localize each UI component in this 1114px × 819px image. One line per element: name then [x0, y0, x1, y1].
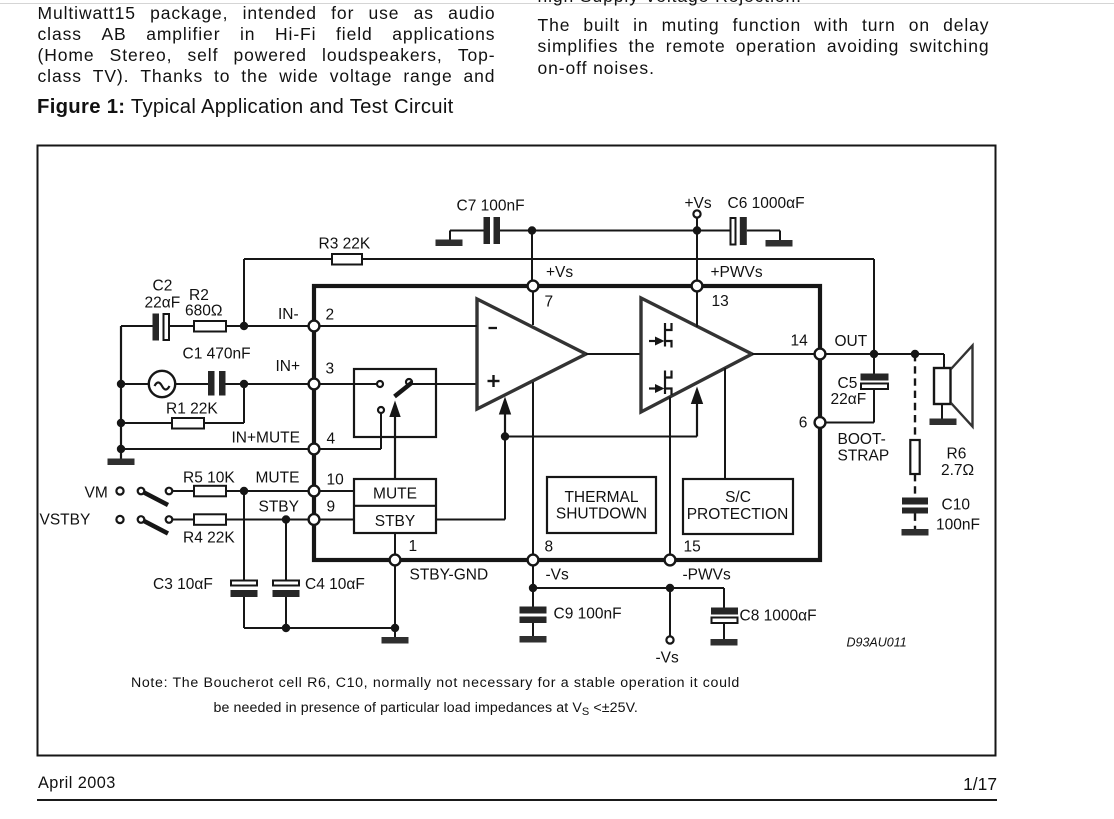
- transistor lower DMOS: [649, 371, 672, 396]
- arrow stby to power stage: [691, 387, 703, 405]
- pin 10: [309, 486, 320, 497]
- wire op-amp to pin 8: [532, 382, 534, 555]
- pin 4: [309, 444, 320, 455]
- figure caption: [37, 96, 454, 119]
- junction: [282, 624, 290, 632]
- svg-text:D93AU011: D93AU011: [847, 636, 907, 650]
- svg-text:R6: R6: [947, 446, 967, 463]
- wire speaker to ground: [941, 404, 943, 419]
- svg-text:IN+MUTE: IN+MUTE: [232, 430, 300, 447]
- wire IN+MUTE to pin 4: [121, 448, 309, 450]
- wire C1 to pin 3: [226, 383, 309, 385]
- svg-text:STRAP: STRAP: [838, 448, 890, 465]
- wire bus to source: [121, 383, 149, 385]
- svg-text:8: 8: [545, 539, 554, 556]
- wire C5 to pin 6: [873, 389, 875, 423]
- wire dashed to R6: [914, 354, 916, 440]
- svg-text:9: 9: [327, 499, 336, 516]
- wire pin 13 into power stage: [696, 286, 698, 327]
- wire power stage to S/C protection: [724, 368, 726, 479]
- wire C7 ground stub: [449, 231, 451, 241]
- ground (C7): [436, 240, 463, 247]
- junction (C4 node): [282, 515, 290, 523]
- svg-text:C6 1000αF: C6 1000αF: [728, 195, 805, 212]
- svg-text:-Vs: -Vs: [546, 567, 570, 584]
- wire R1 right: [204, 422, 244, 424]
- wire to C3: [243, 491, 245, 581]
- wire to R4: [173, 519, 195, 521]
- svg-text:-PWVs: -PWVs: [683, 567, 731, 584]
- thermal shutdown box: [547, 477, 656, 533]
- junction (C3 node): [240, 487, 248, 495]
- pin 3: [309, 379, 320, 390]
- wire down to pin 7: [531, 231, 533, 281]
- mute switch box: [354, 369, 436, 437]
- transistor upper DMOS: [649, 323, 672, 348]
- capacitor C5 (polarized): [861, 374, 889, 381]
- svg-text:C10: C10: [942, 497, 971, 514]
- pin 9: [309, 514, 320, 525]
- ground (STBY-GND): [382, 637, 409, 644]
- wire switch to op-amp +: [412, 383, 477, 385]
- switch SW1 lever: [144, 493, 168, 506]
- wire C7 gnd to C7: [450, 230, 484, 232]
- svg-text:R1 22K: R1 22K: [166, 401, 218, 418]
- svg-text:100nF: 100nF: [936, 517, 980, 534]
- svg-text:14: 14: [791, 333, 809, 350]
- svg-text:IN+: IN+: [276, 358, 301, 375]
- wire to C9: [532, 588, 534, 607]
- plus input mark: [488, 380, 500, 382]
- wire pin 7 into op-amp: [532, 286, 534, 325]
- svg-text:OUT: OUT: [835, 333, 868, 350]
- wire op-amp out to power stage: [586, 353, 641, 355]
- capacitor C6 (polarized): [731, 218, 736, 245]
- wire pin 3 to switch: [320, 383, 378, 385]
- svg-text:3: 3: [326, 361, 335, 378]
- wire to speaker: [943, 354, 945, 368]
- ground (C9): [520, 636, 547, 643]
- junction (IN+ node): [240, 380, 248, 388]
- capacitor C10: [902, 498, 928, 505]
- svg-text:MUTE: MUTE: [373, 486, 417, 503]
- wire C9 down: [532, 623, 534, 636]
- wire box to pin 1: [394, 533, 396, 555]
- pin 8: [528, 555, 539, 566]
- wire feedback drop to OUT: [873, 259, 875, 354]
- wire R3 to OUT (feedback): [362, 258, 874, 260]
- wire to R3: [244, 258, 332, 260]
- junction (stby control): [501, 432, 509, 440]
- ground (C6): [766, 240, 793, 247]
- divider: [354, 505, 436, 507]
- junction (-Vs terminal): [666, 584, 674, 592]
- wire R3 riser to IN- node: [243, 259, 245, 326]
- svg-text:MUTE: MUTE: [256, 470, 300, 487]
- svg-text:BOOT-: BOOT-: [838, 431, 886, 448]
- junction (STBY-GND): [391, 624, 399, 632]
- capacitor C9: [520, 607, 547, 614]
- wire C4 down: [285, 597, 287, 628]
- svg-text:Note: The Boucherot cell R6, C: Note: The Boucherot cell R6, C10, normal…: [131, 675, 740, 691]
- svg-text:R3 22K: R3 22K: [319, 236, 371, 253]
- resistor R6: [910, 440, 919, 474]
- pin 14: [815, 349, 826, 360]
- junction (R6): [911, 350, 919, 358]
- junction (C7/pin7): [528, 226, 536, 234]
- svg-text:2: 2: [326, 307, 335, 324]
- wire dashed C10 to ground: [914, 514, 916, 530]
- switch SW1 contact: [166, 488, 173, 495]
- svg-text:2.7Ω: 2.7Ω: [941, 462, 974, 479]
- IC body TDA7294: [314, 286, 820, 560]
- junction (-Vs node): [529, 584, 537, 592]
- right column paragraph: [538, 0, 990, 7]
- ground (speaker): [930, 419, 957, 426]
- svg-text:R4 22K: R4 22K: [183, 530, 235, 547]
- capacitor C4 (polarized): [273, 581, 299, 586]
- svg-text:STBY: STBY: [375, 513, 415, 530]
- svg-text:C7 100nF: C7 100nF: [457, 198, 525, 215]
- svg-text:C4 10αF: C4 10αF: [305, 576, 365, 593]
- switch SW2 lever: [144, 521, 168, 534]
- wire C2 to R2: [169, 325, 194, 327]
- junction (IN+MUTE): [117, 445, 125, 453]
- wire bus to R1: [121, 422, 172, 424]
- wire -Vs rail: [533, 587, 724, 589]
- switch contact lower: [378, 407, 384, 413]
- wire pin 10 to box: [320, 490, 355, 492]
- figure frame: [38, 146, 996, 756]
- wire +Vs terminal to pin 13: [696, 218, 698, 281]
- wire pin 9 to box: [320, 519, 355, 521]
- switch SW2 pole: [138, 516, 145, 523]
- svg-text:PROTECTION: PROTECTION: [687, 506, 789, 523]
- pin 2: [309, 321, 320, 332]
- svg-text:+PWVs: +PWVs: [711, 264, 763, 281]
- wire lower contact to pin 4: [380, 413, 382, 449]
- svg-text:4: 4: [327, 431, 336, 448]
- terminal +Vs: [693, 210, 700, 217]
- svg-text:VM: VM: [85, 485, 108, 502]
- wire pin 4 inside: [320, 448, 382, 450]
- terminal VSTBY: [116, 516, 123, 523]
- wire to C8: [723, 588, 725, 608]
- wire to -Vs terminal: [669, 588, 671, 637]
- svg-text:7: 7: [545, 294, 554, 311]
- wire source to C1: [175, 383, 208, 385]
- svg-text:1: 1: [409, 538, 418, 555]
- resistor R1: [172, 418, 204, 429]
- capacitor C3 (polarized): [231, 581, 257, 586]
- wire to C4: [285, 520, 287, 581]
- svg-text:THERMAL: THERMAL: [564, 489, 638, 506]
- svg-text:R5 10K: R5 10K: [183, 470, 235, 487]
- svg-text:C1 470nF: C1 470nF: [183, 346, 251, 363]
- resistor R3: [332, 254, 362, 265]
- svg-text:22αF: 22αF: [145, 295, 181, 312]
- mute/stby logic box: [354, 479, 436, 533]
- pin 15: [665, 555, 676, 566]
- wire pin 8 down: [532, 565, 534, 588]
- signal source: [149, 371, 175, 397]
- terminal VM: [116, 487, 123, 494]
- wire C8 down: [723, 623, 725, 639]
- wire to R5: [173, 490, 195, 492]
- junction (source): [117, 380, 125, 388]
- switch contact right: [406, 379, 412, 385]
- resistor R5: [194, 486, 226, 497]
- terminal -Vs: [666, 636, 673, 643]
- wire C3/C4 to ground: [244, 627, 395, 629]
- svg-text:15: 15: [684, 539, 701, 556]
- ground (C10): [902, 529, 929, 536]
- wire bus to C2: [121, 325, 153, 327]
- svg-text:STBY-GND: STBY-GND: [410, 567, 489, 584]
- pin 13: [692, 281, 703, 292]
- wire R4 to pin 9: [226, 519, 309, 521]
- wire R1 riser to IN+ node: [243, 384, 245, 423]
- arrow mute to op-amp: [499, 397, 511, 415]
- svg-text:C3 10αF: C3 10αF: [153, 576, 213, 593]
- svg-text:6: 6: [799, 415, 808, 432]
- wire: [779, 231, 781, 242]
- svg-text:10: 10: [327, 472, 345, 489]
- svg-text:C9 100nF: C9 100nF: [554, 606, 622, 623]
- capacitor C7: [484, 217, 491, 244]
- wire OUT to C5: [873, 354, 875, 374]
- wire power stage out to pin 14: [752, 353, 815, 355]
- svg-text:R2: R2: [189, 287, 209, 304]
- svg-text:VSTBY: VSTBY: [40, 512, 91, 529]
- junction (C5/feedback): [870, 350, 878, 358]
- svg-text:C8 1000αF: C8 1000αF: [740, 608, 817, 625]
- wire R5 to pin 10: [226, 490, 309, 492]
- left column paragraph: [38, 3, 496, 87]
- wire pin 2 to op-amp -: [320, 325, 478, 327]
- ground (input bus): [108, 459, 135, 466]
- svg-text:680Ω: 680Ω: [185, 303, 222, 320]
- svg-text:+Vs: +Vs: [685, 195, 712, 212]
- junction (+Vs node): [693, 226, 701, 234]
- resistor R2: [194, 321, 226, 332]
- wire power stage to pin 15: [669, 397, 671, 555]
- wire C7 to +Vs node: [500, 230, 697, 232]
- pin 7: [528, 281, 539, 292]
- junction (R1): [117, 419, 125, 427]
- wire to pin 6: [826, 422, 875, 424]
- svg-text:13: 13: [712, 293, 729, 310]
- wire R2 to pin 2: [226, 325, 309, 327]
- power stage U2: [641, 298, 752, 412]
- wire C6 to ground: [747, 230, 780, 232]
- pin 1: [390, 555, 401, 566]
- resistor R4: [194, 514, 226, 525]
- capacitor C1: [208, 371, 215, 396]
- svg-text:SHUTDOWN: SHUTDOWN: [556, 505, 647, 522]
- wire input ground bus: [120, 326, 122, 459]
- capacitor C2 (polarized): [153, 314, 160, 341]
- svg-text:be needed in presence of parti: be needed in presence of particular load…: [214, 700, 638, 718]
- svg-text:C2: C2: [153, 278, 173, 295]
- svg-text:S/C: S/C: [725, 489, 751, 506]
- arrow mute control: [389, 401, 400, 418]
- switch contact left: [377, 381, 383, 387]
- capacitor C8 (polarized): [711, 608, 738, 615]
- s/c protection box: [683, 479, 793, 534]
- op-amp U1 (input stage): [477, 299, 586, 409]
- switch SW1 pole: [138, 488, 145, 495]
- svg-text:C5: C5: [838, 375, 858, 392]
- svg-text:+Vs: +Vs: [546, 264, 573, 281]
- wire C3 down: [243, 597, 245, 628]
- ground (C8): [711, 639, 738, 646]
- wire +Vs to C6: [697, 230, 731, 232]
- wire STBY box to riser: [436, 519, 505, 521]
- wire dashed R6 to C10: [914, 474, 916, 498]
- pin 6: [815, 417, 826, 428]
- junction (IN- node): [240, 322, 248, 330]
- switch SW2 contact: [166, 516, 173, 523]
- svg-text:STBY: STBY: [259, 499, 299, 516]
- svg-text:-Vs: -Vs: [656, 650, 680, 667]
- switch lever (mute): [395, 383, 413, 397]
- svg-text:IN-: IN-: [278, 306, 299, 323]
- speaker: [934, 368, 951, 404]
- wire OUT: [826, 353, 945, 355]
- wire pin 1 to ground: [394, 566, 396, 638]
- wire stby control: [505, 436, 697, 438]
- minus input mark: [489, 327, 498, 329]
- wire STBY box riser: [504, 437, 506, 520]
- svg-text:22αF: 22αF: [831, 391, 867, 408]
